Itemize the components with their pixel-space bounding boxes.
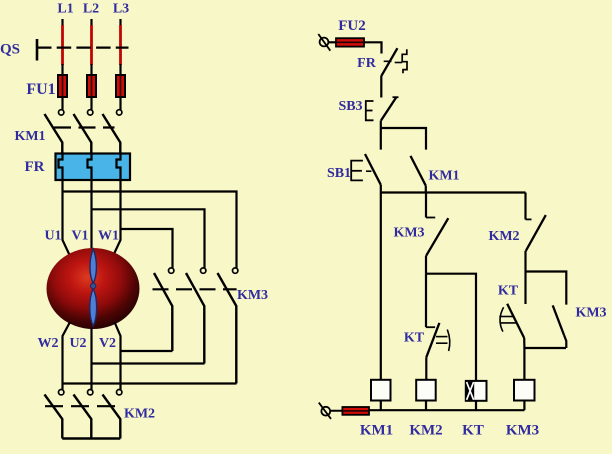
svg-text:L2: L2 bbox=[83, 2, 99, 17]
thermal relay FR NC contact bbox=[381, 48, 407, 76]
wire SB1 to rail bbox=[380, 185, 382, 193]
wire L2 stub bbox=[90, 19, 92, 26]
svg-text:L1: L1 bbox=[57, 2, 73, 17]
wire control rail bbox=[381, 191, 526, 193]
wire W2 branch to KM3 right pole bottom bbox=[63, 382, 237, 384]
svg-text:FR: FR bbox=[25, 159, 45, 175]
wire KT coil to bottom rail bbox=[475, 401, 477, 410]
thermal relay FR heater element pole 3 and wire to motor W1 bbox=[113, 154, 121, 257]
node W2 label bbox=[38, 336, 59, 351]
svg-text:SB3: SB3 bbox=[338, 99, 362, 114]
switch QS blade pole 2 (red) bbox=[90, 25, 93, 65]
fuse FU2 bbox=[328, 38, 364, 46]
wire motor W2 lead down bbox=[63, 322, 71, 390]
wire rejoin to KM3 coil bbox=[523, 348, 525, 380]
wire QS to FU1 pole 2 bbox=[90, 64, 92, 75]
svg-text:FU1: FU1 bbox=[26, 81, 55, 98]
svg-text:U2: U2 bbox=[69, 336, 86, 351]
coil KM2 label bbox=[409, 423, 442, 439]
wire KM3 aux down to rejoin bbox=[564, 335, 566, 348]
svg-text:KM2: KM2 bbox=[409, 423, 442, 439]
contactor KM2 aux contact label bbox=[488, 229, 519, 244]
svg-text:KM3: KM3 bbox=[506, 423, 539, 439]
svg-text:KM3: KM3 bbox=[237, 288, 268, 303]
wire L3 stub bbox=[119, 19, 121, 26]
wire SB3 to SB1 bbox=[380, 121, 382, 150]
thermal relay FR contact label bbox=[357, 56, 377, 71]
coil KT (time relay) bbox=[466, 381, 487, 401]
wire motor U2 lead down bbox=[90, 328, 92, 390]
coil KT label bbox=[462, 423, 484, 439]
contactor KM1 aux contact label bbox=[428, 169, 459, 184]
wire rail to KM2 aux contact bbox=[524, 193, 526, 220]
wire V1 branch to KM3 middle pole bbox=[92, 209, 205, 268]
fuse FU1 label bbox=[26, 81, 55, 98]
contactor KM3 NC interlock contact bbox=[426, 218, 448, 257]
fuse FU2 label bbox=[338, 18, 366, 34]
contactor KM2 label (power) bbox=[124, 407, 155, 422]
coil KM3 bbox=[514, 380, 535, 401]
node U2 label bbox=[69, 336, 86, 351]
wire junction to KT NC contact bbox=[524, 272, 526, 305]
svg-text:KM3: KM3 bbox=[393, 226, 424, 241]
node V1 label bbox=[71, 229, 88, 244]
contactor KM1 main contact pole 3 bbox=[103, 110, 122, 154]
wire KM3 NC to junction bbox=[425, 256, 427, 274]
contactor KM1 main contact pole 1 bbox=[45, 110, 64, 154]
wire KM1 contact to rail bbox=[425, 186, 427, 193]
svg-text:KM2: KM2 bbox=[124, 407, 155, 422]
contactor KM3 main contact pole 2 bbox=[186, 268, 206, 364]
wire rail to KM3 NC contact bbox=[425, 193, 427, 218]
switch QS blade pole 1 (red) bbox=[61, 25, 64, 65]
contactor KM3 main contact pole 3 bbox=[218, 268, 238, 384]
contactor KM2 main contact pole 1 bbox=[45, 390, 64, 439]
wire rail to KM1 coil bbox=[380, 193, 382, 380]
pushbutton SB1 label bbox=[327, 166, 351, 181]
wire junction to KT coil bbox=[426, 274, 476, 381]
node W1 label bbox=[98, 229, 119, 244]
contactor KM3 aux contact label (right) bbox=[575, 306, 606, 321]
wire branch SB3 to KM1 aux contact bbox=[381, 128, 426, 150]
svg-text:KM1: KM1 bbox=[428, 169, 459, 184]
svg-text:KT: KT bbox=[498, 284, 519, 299]
time relay KT contact label bbox=[404, 331, 425, 346]
contactor KM3 main contact pole 1 bbox=[154, 268, 174, 351]
wire FU2 to FR contact bbox=[364, 42, 382, 53]
contactor KM1 label bbox=[14, 129, 45, 144]
node L2 label bbox=[83, 2, 99, 17]
svg-text:KM1: KM1 bbox=[360, 423, 393, 439]
wire QS to FU1 pole 1 bbox=[61, 64, 63, 75]
node V2 label bbox=[99, 336, 116, 351]
thermal relay FR heater box bbox=[56, 154, 131, 181]
node L3 label bbox=[113, 2, 129, 17]
node L1 label bbox=[57, 2, 73, 17]
wire KM2 contact to junction bbox=[524, 251, 526, 272]
wire KT NC down to rejoin bbox=[523, 338, 525, 348]
motor M body bbox=[47, 248, 140, 329]
contactor KM3 linkage dashed line bbox=[153, 288, 237, 290]
wire rejoin bar bbox=[524, 347, 566, 349]
time relay KT NC timed contact bbox=[499, 304, 524, 338]
wire L1 stub bbox=[61, 19, 63, 26]
wire motor V2 lead down bbox=[115, 322, 121, 390]
node U1 label bbox=[44, 229, 61, 244]
control supply terminal (bottom) bbox=[319, 403, 331, 419]
fuse FU1 pole 3 bbox=[116, 75, 125, 110]
wire W1 branch to KM3 left pole bbox=[121, 229, 173, 268]
switch QS label bbox=[0, 42, 20, 58]
svg-text:QS: QS bbox=[0, 42, 20, 58]
pushbutton SB3 (stop, NC) bbox=[366, 97, 399, 120]
coil KM2 bbox=[416, 380, 436, 401]
wire KM2 coil to bottom rail bbox=[425, 401, 427, 411]
wire U2 branch to KM3 middle pole bottom bbox=[92, 362, 205, 364]
wire control bottom rail bbox=[369, 409, 524, 411]
time relay KT NC contact label bbox=[498, 284, 519, 299]
wire V2 branch to KM3 left pole bottom bbox=[121, 350, 173, 352]
svg-text:KT: KT bbox=[404, 331, 425, 346]
time relay KT NO timed contact bbox=[426, 323, 450, 357]
motor shaft spindle (blue) bbox=[90, 249, 97, 326]
wire FR to SB3 bbox=[380, 76, 382, 98]
coil KM1 bbox=[371, 380, 391, 401]
wire QS to FU1 pole 3 bbox=[119, 64, 121, 75]
contactor KM1 linkage dashed line bbox=[54, 126, 115, 128]
svg-text:V1: V1 bbox=[71, 229, 88, 244]
coil KM3 label bbox=[506, 423, 539, 439]
wire junction to KT contact bbox=[425, 274, 427, 328]
svg-text:V2: V2 bbox=[99, 336, 116, 351]
svg-text:KT: KT bbox=[462, 423, 484, 439]
contactor KM1 main contact pole 2 bbox=[74, 110, 93, 154]
pushbutton SB1 (start, NO) bbox=[351, 154, 381, 185]
svg-text:W2: W2 bbox=[38, 336, 59, 351]
switch QS linkage dashed line bbox=[37, 46, 129, 48]
switch QS linkage bar bbox=[36, 39, 39, 61]
wire U1 branch to KM3 right pole bbox=[63, 192, 237, 269]
contactor KM2 aux NO contact bbox=[526, 215, 546, 251]
thermal relay FR heater element pole 2 and wire to motor V1 bbox=[88, 154, 92, 253]
contactor KM1 aux NO contact bbox=[411, 156, 426, 186]
wire KT contact to KM2 coil bbox=[425, 357, 427, 380]
contactor KM3 NC contact label bbox=[393, 226, 424, 241]
svg-text:FU2: FU2 bbox=[338, 18, 366, 34]
fuse FU1 pole 2 bbox=[87, 75, 96, 110]
coil KM1 label bbox=[360, 423, 393, 439]
svg-text:KM2: KM2 bbox=[488, 229, 519, 244]
svg-text:U1: U1 bbox=[44, 229, 61, 244]
switch QS blade pole 3 (red) bbox=[119, 25, 122, 65]
svg-text:KM1: KM1 bbox=[14, 129, 45, 144]
svg-text:W1: W1 bbox=[98, 229, 119, 244]
contactor KM3 aux contact (right branch) bbox=[553, 305, 564, 335]
wire KM1 coil to bottom rail bbox=[380, 401, 382, 411]
control supply terminal (top) bbox=[318, 34, 330, 51]
wire junction to KM3 NC (right) bbox=[526, 272, 567, 305]
thermal relay FR heater element pole 1 and wire to motor U1 bbox=[59, 154, 71, 257]
svg-text:SB1: SB1 bbox=[327, 166, 351, 181]
contactor KM2 main contact pole 3 bbox=[103, 390, 122, 439]
svg-text:KM3: KM3 bbox=[575, 306, 606, 321]
svg-text:L3: L3 bbox=[113, 2, 129, 17]
fuse FU1 pole 1 bbox=[58, 75, 67, 110]
pushbutton SB3 label bbox=[338, 99, 362, 114]
fuse FU3 (bottom, unlabelled) bbox=[330, 407, 369, 415]
contactor KM2 main contact pole 2 bbox=[74, 390, 93, 439]
wire KM3 coil to bottom rail bbox=[523, 401, 525, 411]
svg-text:FR: FR bbox=[357, 56, 377, 71]
contactor KM2 linkage dashed line bbox=[45, 405, 118, 407]
wire KM2 star point bar bbox=[62, 437, 120, 439]
contactor KM3 label (power) bbox=[237, 288, 268, 303]
thermal relay FR label bbox=[25, 159, 45, 175]
